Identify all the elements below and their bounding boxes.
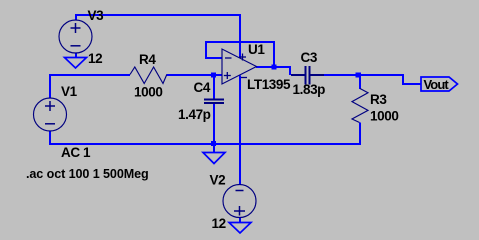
svg-text:AC 1: AC 1 (61, 145, 91, 160)
svg-text:1000: 1000 (370, 109, 398, 124)
svg-text:12: 12 (212, 216, 226, 231)
svg-text:Vout: Vout (424, 77, 450, 92)
svg-text:R4: R4 (139, 52, 156, 67)
svg-text:1000: 1000 (134, 85, 162, 100)
svg-text:V3: V3 (88, 8, 105, 23)
svg-text:12: 12 (88, 51, 102, 66)
svg-text:LT1395: LT1395 (247, 77, 291, 92)
svg-text:C3: C3 (301, 50, 318, 65)
svg-text:U1: U1 (248, 42, 265, 57)
svg-text:1.47p: 1.47p (178, 107, 211, 122)
svg-text:C4: C4 (194, 80, 211, 95)
svg-text:1.83p: 1.83p (293, 82, 326, 97)
svg-text:R3: R3 (370, 92, 387, 107)
svg-text:V1: V1 (61, 84, 78, 99)
svg-text:.ac oct 100 1 500Meg: .ac oct 100 1 500Meg (26, 167, 149, 181)
svg-text:V2: V2 (210, 173, 226, 188)
